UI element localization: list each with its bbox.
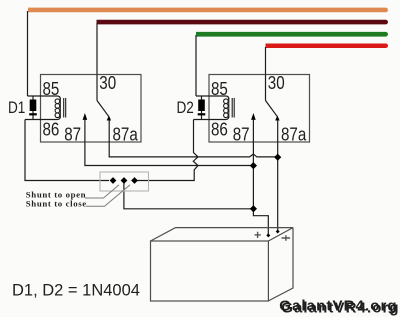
plus sign 1	[255, 232, 261, 238]
shunt terminal right	[131, 177, 138, 184]
feed wire dark red to relay1 pin30	[96, 23, 98, 75]
plus sign 2	[282, 235, 291, 241]
wire relay2-87 down to battery plus	[253, 142, 268, 235]
svg-text:D1: D1	[8, 99, 25, 118]
battery terminal node plus	[266, 233, 270, 237]
wire relay2-87a down to battery second terminal	[277, 142, 279, 232]
wire relay1-87a to node (y157 bus) with hop over 87 wire of relay2	[109, 142, 278, 157]
shunt terminal block	[100, 172, 149, 191]
wire relay1-86 down-left to shunt block	[25, 120, 109, 181]
supply bar dark red	[97, 20, 388, 25]
junction node relay2-87 / 87 bus	[250, 162, 257, 169]
battery terminal node second	[276, 230, 280, 234]
wire relay1-87 to node (y165.5 bus)	[85, 142, 254, 166]
leader line open	[85, 185, 119, 198]
battery top face	[151, 228, 294, 241]
junction node relay2-87a / 87a bus	[274, 154, 281, 161]
leader line close	[86, 185, 130, 206]
feed wire orange to relay1 coil	[27, 11, 29, 96]
supply bar red	[266, 44, 388, 49]
wire shunt middle terminal to battery plus wire	[124, 181, 254, 209]
shunt terminal left	[110, 177, 117, 184]
watermark GalantVR4.org	[279, 297, 400, 316]
relay U2	[194, 73, 310, 145]
shunt terminal middle	[121, 177, 128, 184]
battery front face	[151, 241, 269, 301]
junction node shunt-middle / battery wire	[250, 205, 257, 212]
svg-text:Shunt to close: Shunt to close	[26, 198, 87, 208]
feed wire green to relay2 coil	[195, 35, 197, 96]
battery right face	[268, 228, 293, 301]
svg-text:GalantVR4.org: GalantVR4.org	[279, 297, 398, 314]
svg-text:D2: D2	[177, 99, 194, 118]
wire relay2-86 down with hops over both buses to shunt block	[136, 120, 198, 181]
feed wire red to relay2 pin30	[265, 47, 267, 75]
supply bar green	[196, 32, 388, 37]
svg-text:D1, D2 = 1N4004: D1, D2 = 1N4004	[12, 282, 140, 300]
supply bar orange	[28, 8, 388, 13]
relay U1	[25, 73, 141, 145]
